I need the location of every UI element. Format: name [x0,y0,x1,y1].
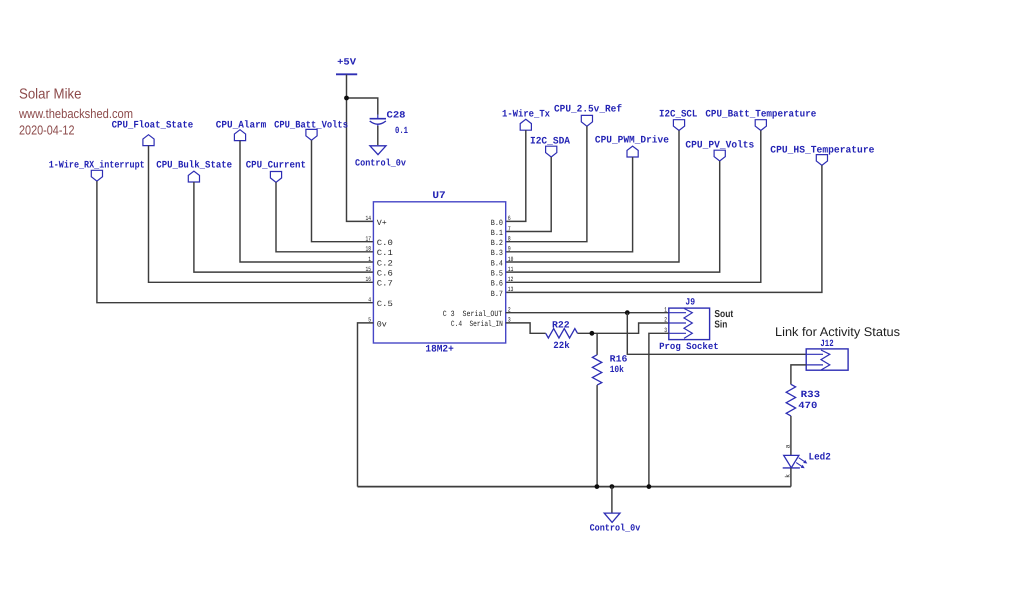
svg-text:U7: U7 [432,191,445,202]
svg-text:C 3 Serial_OUT: C 3 Serial_OUT [443,310,503,319]
svg-text:10: 10 [508,256,514,263]
svg-text:9: 9 [508,246,511,253]
U7 pin 16 C.7 [366,276,394,289]
wire CPU_Bulk_State to U7 [194,182,374,272]
wire U7 0v pin to ground rail [358,323,374,487]
U7 pin 3 C.4 Serial_IN [451,317,511,330]
node rail/R16 [595,484,600,489]
svg-text:J12: J12 [820,338,833,349]
svg-text:18: 18 [366,246,372,253]
svg-text:Control_0v: Control_0v [590,523,641,534]
net tag I2C_SDA [530,136,570,157]
svg-text:8: 8 [508,236,511,243]
svg-text:CPU_PWM_Drive: CPU_PWM_Drive [595,134,669,146]
wire J9 pin3 to ground rail [649,333,669,486]
U7 pin 7 B.1 [491,225,511,238]
svg-text:2: 2 [664,317,667,324]
net tag CPU_Current [246,161,306,183]
svg-text:R16: R16 [610,354,628,365]
wire ground stub [611,487,613,513]
wire CPU_2.5v_Ref to U7 [506,126,587,242]
wire CPU_Float_State to U7 [149,146,374,283]
svg-text:Led2: Led2 [809,452,831,464]
svg-text:V+: V+ [377,219,387,228]
wire I2C_SDA to U7 [506,157,552,232]
svg-text:B.5: B.5 [491,270,503,279]
ground Control_0v (top) [355,146,406,169]
resistor R16 10k [592,354,627,385]
svg-text:CPU_Batt_Temperature: CPU_Batt_Temperature [705,110,816,121]
net tag CPU_Float_State [112,120,194,146]
svg-text:R33: R33 [801,389,821,400]
svg-text:2020-04-12: 2020-04-12 [19,122,75,137]
wire branch to C28 [347,98,378,115]
svg-text:C.6: C.6 [377,270,393,279]
net tag 1-Wire_Tx [502,109,550,131]
power +5V symbol [336,57,357,75]
wire CPU_PWM_Drive to U7 [506,157,633,252]
svg-text:22k: 22k [553,340,570,351]
U7 pin 6 B.0 [491,215,511,228]
svg-text:C.0: C.0 [377,239,393,248]
node junction +5V/C28 [344,96,349,101]
svg-text:B.3: B.3 [491,249,503,258]
svg-text:CPU_2.5v_Ref: CPU_2.5v_Ref [554,103,622,115]
svg-text:4: 4 [368,297,371,304]
U7 pin 5 0v [368,317,387,330]
svg-text:B.6: B.6 [491,280,503,289]
svg-text:17: 17 [366,236,372,243]
svg-text:18M2+: 18M2+ [425,345,453,356]
node rail/J9 pin3 wire [647,484,652,489]
net tag CPU_2.5v_Ref [554,103,622,126]
node junction R22/R16 [590,331,595,336]
svg-text:I2C_SDA: I2C_SDA [530,136,570,147]
U7 pin 4 C.5 [368,297,393,310]
ground Control_0v (bottom) [590,513,641,534]
svg-text:B.1: B.1 [491,229,503,238]
U7 pin 14 V+ [366,215,387,228]
net tag CPU_PWM_Drive [595,134,669,157]
net tag I2C_SCL [659,110,697,131]
resistor R22 22k [546,319,578,351]
wire CPU_Batt_Volts to U7 [312,140,374,242]
resistor R33 470 [786,384,820,416]
net tag CPU_HS_Temperature [770,146,874,166]
svg-text:+5V: +5V [337,57,356,68]
U7 pin 8 B.2 [491,236,511,249]
capacitor C28 0.1 [370,109,409,136]
svg-text:1: 1 [368,256,371,263]
svg-text:B.2: B.2 [491,239,503,248]
wire I2C_SCL to U7 [506,131,679,263]
svg-text:1-Wire_Tx: 1-Wire_Tx [502,109,550,121]
wire R16 to ground rail [596,385,598,487]
U7 pin 10 B.4 [491,256,514,269]
svg-text:6: 6 [508,215,511,222]
svg-text:CPU_HS_Temperature: CPU_HS_Temperature [770,146,874,157]
svg-text:0v: 0v [377,320,387,329]
node rail/ground stub [610,484,615,489]
op IC U7 18M2+ [373,191,505,355]
U7 pin 1 C.2 [368,256,393,269]
LED Led2 [783,444,831,478]
svg-text:CPU_Batt_Volts: CPU_Batt_Volts [274,120,348,132]
svg-text:10k: 10k [610,364,624,375]
svg-text:C.4 Serial_IN: C.4 Serial_IN [451,320,503,329]
svg-text:C28: C28 [387,109,406,120]
svg-text:1: 1 [664,306,667,313]
net tag CPU_Alarm [216,120,266,141]
svg-text:C.7: C.7 [377,280,393,289]
svg-text:Link for Activity Status: Link for Activity Status [775,325,900,339]
svg-text:Prog Socket: Prog Socket [659,341,719,352]
U7 pin 17 C.0 [366,236,394,249]
net tag CPU_Batt_Volts [274,120,348,141]
wire branch to J12 pin1 [627,313,806,355]
net tag CPU_Batt_Temperature [705,110,816,131]
svg-text:CPU_Bulk_State: CPU_Bulk_State [156,160,232,172]
wire J12 pin2 to R33 [791,365,806,385]
wire 1-Wire_RX_interrupt to U7 [97,181,374,303]
svg-text:B.4: B.4 [491,259,503,268]
svg-text:a: a [784,444,791,448]
U7 pin 18 C.1 [366,246,394,259]
svg-text:Solar Mike: Solar Mike [19,87,82,103]
svg-text:B.0: B.0 [491,219,503,228]
svg-text:C.2: C.2 [377,259,393,268]
net tag 1-Wire_RX_interrupt [49,160,145,182]
svg-text:B.7: B.7 [491,290,503,299]
U7 pin 2 C.3 Serial_OUT [443,307,511,320]
svg-text:470: 470 [798,400,817,411]
wire Led2 to ground rail [790,468,792,487]
wire CPU_Batt_Temperature to U7 [506,131,761,283]
wire Serial_OUT pin2 to J9 pin1 [506,312,669,314]
wire +5V rail down to V+ pin 14 [347,75,374,222]
U7 pin 11 B.5 [491,266,514,279]
wire CPU_Alarm to U7 [240,141,373,262]
svg-text:7: 7 [508,225,511,232]
svg-text:C.5: C.5 [377,300,393,309]
wire junction down to R16 [596,333,598,355]
svg-text:www.thebackshed.com: www.thebackshed.com [18,106,133,121]
wire C28 to ground [377,126,379,145]
U7 pin 15 C.6 [366,266,394,279]
wire CPU_HS_Temperature to U7 [506,165,822,292]
svg-text:14: 14 [366,215,372,222]
svg-text:CPU_PV_Volts: CPU_PV_Volts [685,139,754,151]
U7 pin 12 B.6 [491,276,514,289]
svg-text:12: 12 [508,276,514,283]
svg-text:1-Wire_RX_interrupt: 1-Wire_RX_interrupt [49,160,145,172]
wire R33 to Led2 [790,416,792,455]
net tag CPU_Bulk_State [156,160,232,182]
connector J9 Prog Socket [659,296,719,352]
connector J12 [806,338,848,370]
svg-text:13: 13 [508,286,514,293]
wire Serial_IN pin3 to R22 [506,323,546,333]
wire CPU_PV_Volts to U7 [506,161,720,272]
svg-text:R22: R22 [552,319,570,330]
svg-text:Sin: Sin [714,319,727,330]
svg-text:I2C_SCL: I2C_SCL [659,110,697,121]
svg-text:15: 15 [366,266,372,273]
svg-text:16: 16 [366,276,372,283]
svg-text:Control_0v: Control_0v [355,157,406,168]
U7 pin 13 B.7 [491,286,514,299]
wire CPU_Current to U7 [276,182,373,252]
svg-text:C.1: C.1 [377,249,393,258]
U7 pin 9 B.3 [491,246,511,259]
svg-text:11: 11 [508,266,514,273]
wire 1-Wire_Tx to U7 [506,130,526,221]
wire ground rail [358,486,791,488]
svg-text:CPU_Float_State: CPU_Float_State [112,120,194,132]
svg-text:CPU_Alarm: CPU_Alarm [216,120,266,132]
svg-text:J9: J9 [685,296,695,307]
svg-text:CPU_Current: CPU_Current [246,161,306,172]
net tag CPU_PV_Volts [685,139,754,161]
node junction serial out / J12 branch [625,310,630,315]
svg-text:0.1: 0.1 [395,125,408,136]
wire R22 to J9 pin2 [578,323,669,333]
